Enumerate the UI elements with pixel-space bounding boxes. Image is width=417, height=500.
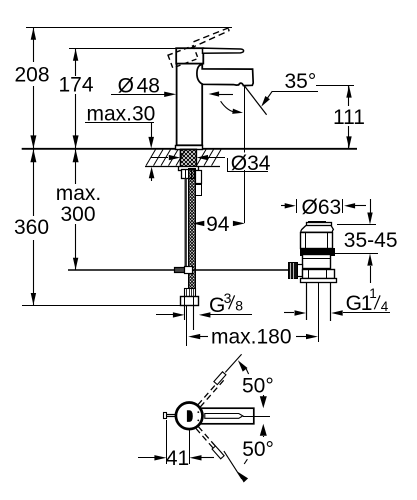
svg-text:Ø: Ø	[118, 74, 134, 97]
svg-text:300: 300	[60, 203, 95, 226]
svg-text:Ø63: Ø63	[302, 196, 342, 219]
svg-text:1: 1	[369, 286, 377, 301]
svg-text:360: 360	[14, 216, 49, 239]
svg-text:50°: 50°	[242, 375, 274, 398]
svg-text:4: 4	[381, 299, 389, 314]
svg-text:Ø34: Ø34	[231, 152, 271, 175]
svg-text:111: 111	[333, 106, 365, 129]
svg-text:208: 208	[14, 64, 49, 87]
svg-text:35-45: 35-45	[344, 229, 398, 252]
svg-text:max.: max.	[56, 182, 102, 205]
svg-text:174: 174	[58, 74, 93, 97]
svg-text:41: 41	[166, 447, 189, 470]
svg-text:8: 8	[235, 298, 243, 314]
svg-text:94: 94	[206, 213, 230, 236]
svg-text:50°: 50°	[242, 438, 274, 461]
svg-text:35°: 35°	[285, 70, 317, 93]
svg-text:48: 48	[137, 74, 160, 97]
svg-text:max.180: max.180	[211, 326, 292, 349]
svg-text:G1: G1	[346, 292, 372, 315]
